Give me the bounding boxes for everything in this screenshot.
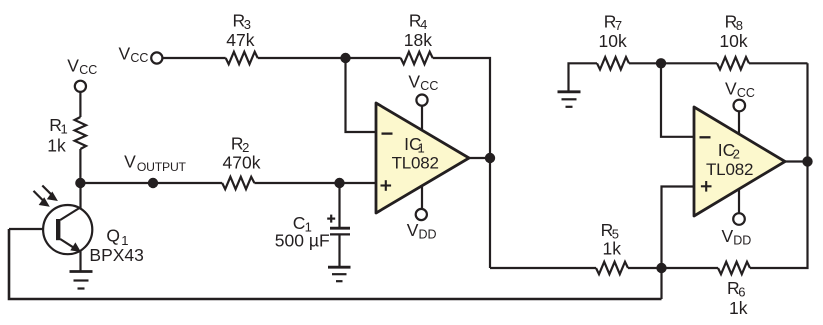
svg-text:V: V xyxy=(67,56,79,76)
svg-text:DD: DD xyxy=(733,233,751,247)
svg-text:470k: 470k xyxy=(223,153,261,173)
op-amp U2 IC2 triangle xyxy=(694,107,785,216)
pin VCC of IC1 xyxy=(416,95,427,131)
label IC2 TL082 xyxy=(706,140,753,179)
label - (IC2 inverting input) xyxy=(700,136,711,138)
wire Q1 collector to node A xyxy=(79,183,81,208)
svg-text:500 µF: 500 µF xyxy=(275,230,330,250)
label R8 10k xyxy=(719,11,747,51)
capacitor C1 xyxy=(330,228,350,266)
pin VDD of IC2 xyxy=(733,189,745,225)
wire IC1 output stub xyxy=(469,157,490,159)
label Q1 BPX43 xyxy=(89,226,143,266)
wire R8 row xyxy=(629,62,808,64)
node D junction dot (IC1 output) xyxy=(485,153,495,163)
svg-text:BPX43: BPX43 xyxy=(89,245,143,265)
resistor R1 xyxy=(75,117,86,149)
label VCC (IC2 pin) xyxy=(725,78,755,100)
label VCC (IC1 pin) xyxy=(408,71,438,93)
label R1 1k xyxy=(47,115,67,155)
wire VCC to R1 xyxy=(79,92,81,117)
resistor R2 xyxy=(222,177,254,189)
label C1 500uF xyxy=(275,213,330,250)
node A junction dot xyxy=(75,178,85,188)
svg-text:V: V xyxy=(408,71,420,91)
label R5 1k xyxy=(601,220,622,259)
svg-text:CC: CC xyxy=(737,86,755,100)
light arrow 1 xyxy=(42,186,58,202)
svg-text:V: V xyxy=(725,78,737,98)
label VOUTPUT xyxy=(124,152,186,174)
label IC1 TL082 xyxy=(392,134,439,173)
wire Q1 emitter to ground xyxy=(79,250,81,271)
node VOUTPUT dot xyxy=(148,178,158,188)
svg-text:1: 1 xyxy=(61,121,68,136)
node B junction dot (R2 / C1 / + input) xyxy=(334,178,344,188)
svg-text:OUTPUT: OUTPUT xyxy=(137,160,187,174)
wire R5 row (from IC1 output corner to node E) xyxy=(490,267,718,269)
resistor R8 xyxy=(717,57,749,69)
node C junction dot (R3/R4/- input) xyxy=(340,53,350,63)
resistor R7 xyxy=(597,57,629,69)
svg-text:V: V xyxy=(119,44,131,64)
wire R7 to ground xyxy=(569,63,598,91)
wire node F down to - input of IC2 xyxy=(661,63,694,137)
svg-text:CC: CC xyxy=(130,51,148,65)
op-amp U1 IC1 triangle xyxy=(376,103,469,213)
label VCC (second terminal) xyxy=(119,44,149,66)
label - (IC1 inverting input) xyxy=(382,132,393,134)
label R2 470k xyxy=(223,133,261,172)
pin VDD of IC1 xyxy=(416,186,427,220)
label + (IC1 non-inverting input) xyxy=(381,180,392,191)
node G junction dot (IC2 output) xyxy=(802,156,812,166)
ground (left of R7) xyxy=(558,92,581,107)
ground (Q1 emitter) xyxy=(70,272,93,289)
resistor R6 xyxy=(718,262,750,274)
pin VCC of IC2 xyxy=(734,100,746,134)
label R4 18k xyxy=(404,10,432,50)
wire IC2 + input to node E and down to bus xyxy=(662,187,695,300)
svg-text:TL082: TL082 xyxy=(392,154,439,173)
label VDD (IC2 pin) xyxy=(722,226,752,248)
resistor R5 xyxy=(596,262,628,274)
wire VOUTPUT row (node A to op-amp + input) xyxy=(80,182,376,184)
svg-text:10k: 10k xyxy=(719,31,747,51)
svg-text:TL082: TL082 xyxy=(706,160,753,179)
ground (below C1) xyxy=(328,267,351,281)
svg-text:1k: 1k xyxy=(47,135,66,155)
node F junction dot (R7/R8/- input) xyxy=(656,58,666,68)
wire R3 to R4 (through node C) xyxy=(258,57,401,59)
svg-text:1k: 1k xyxy=(603,239,622,259)
label VCC (left terminal) xyxy=(67,56,97,78)
svg-text:47k: 47k xyxy=(226,30,254,50)
terminal VCC (left) xyxy=(75,81,86,92)
svg-text:Q: Q xyxy=(106,226,120,246)
wire bottom bus xyxy=(9,229,662,299)
wire R6 to output column xyxy=(750,63,808,268)
svg-text:CC: CC xyxy=(79,63,97,77)
wire C1 branch xyxy=(338,183,340,227)
svg-text:18k: 18k xyxy=(404,30,432,50)
node E junction dot (R5/R6/+ input/bus) xyxy=(656,263,666,273)
resistor R3 xyxy=(226,52,258,64)
wire terminal to R3 xyxy=(163,57,226,59)
svg-text:V: V xyxy=(407,220,419,240)
wire node C down to - input of IC1 xyxy=(346,58,377,132)
label R7 10k xyxy=(599,11,627,51)
label + (C1 polarity) xyxy=(327,215,335,223)
transistor Q1 (phototransistor) xyxy=(43,205,92,254)
label R3 47k xyxy=(226,10,254,50)
terminal VCC (second, feeds R3) xyxy=(151,52,162,63)
svg-text:DD: DD xyxy=(419,227,437,241)
label VDD (IC1 pin) xyxy=(407,220,437,242)
label + (IC2 non-inverting input) xyxy=(701,181,712,192)
wire R4 to feedback corner, down to IC1 output node, down to R5 row xyxy=(433,58,490,268)
label R6 1k xyxy=(727,278,748,318)
light arrow 2 xyxy=(34,191,50,207)
svg-text:V: V xyxy=(722,226,734,246)
wire Q1 base lead xyxy=(9,228,56,230)
svg-text:CC: CC xyxy=(420,79,438,93)
wire R1 to node A xyxy=(79,149,81,183)
svg-text:10k: 10k xyxy=(599,31,627,51)
svg-text:V: V xyxy=(124,152,136,172)
svg-text:1k: 1k xyxy=(729,298,748,318)
wire IC2 output stub xyxy=(785,160,808,162)
resistor R4 xyxy=(401,52,433,64)
